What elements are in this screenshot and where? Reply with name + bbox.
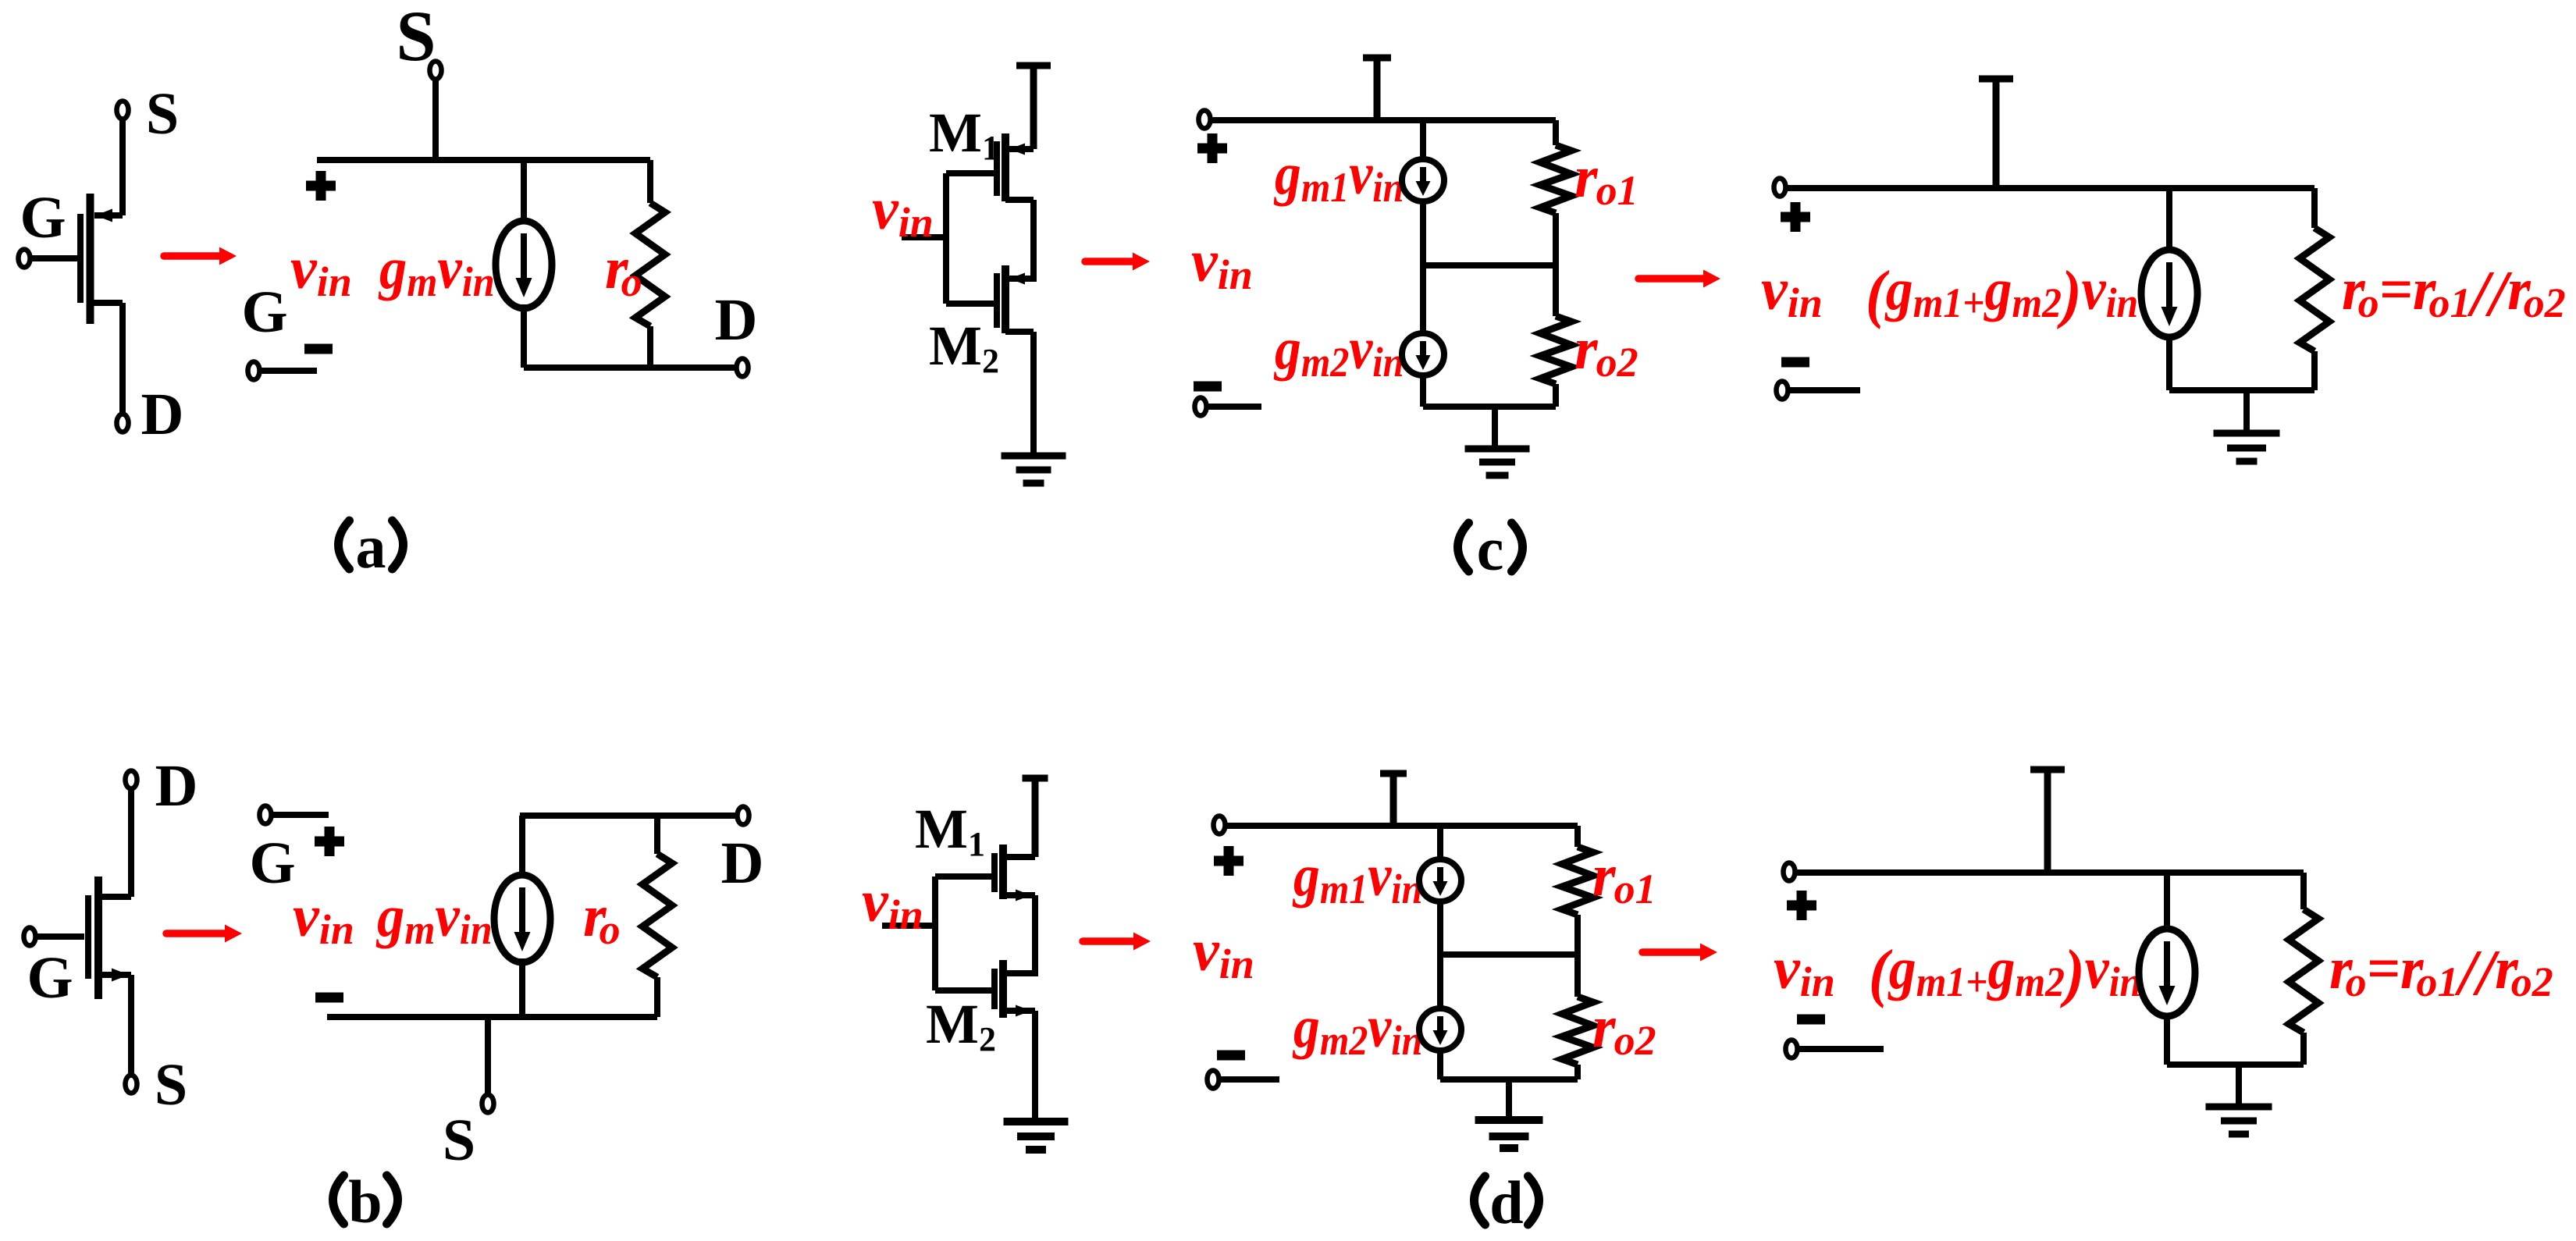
- label g_m v_in: [375, 884, 493, 954]
- resistor top stub: [2300, 873, 2307, 909]
- wire bottom: [1423, 404, 1556, 410]
- wire - stub: [1788, 387, 1860, 393]
- wire bottom: [1440, 1076, 1578, 1083]
- current source g_m1 v_in body: [1419, 859, 1461, 901]
- current source g_m1 v_in outline: [1402, 159, 1444, 201]
- label g_m1 v_in: [1292, 842, 1422, 912]
- resistor r_o: [2289, 909, 2318, 1033]
- M1 source arrow: [1009, 144, 1025, 155]
- power VDD: [2030, 766, 2065, 773]
- power VDD: [1363, 55, 1391, 62]
- gate bracket vertical: [932, 877, 938, 990]
- wire resistor top stub: [647, 160, 653, 203]
- node + circle: [1214, 816, 1226, 834]
- label g_m v_in: [378, 236, 495, 306]
- node + circle: [1774, 179, 1786, 197]
- wire top: [520, 813, 740, 819]
- wire: [519, 958, 525, 1017]
- svg-text:(gm1+gm2)vin: (gm1+gm2)vin: [1866, 256, 2138, 329]
- wire: [1420, 375, 1426, 407]
- M1 drain arrow: [1016, 890, 1031, 901]
- M2 gate bar: [994, 273, 1000, 328]
- wire bottom: [524, 364, 737, 371]
- svg-text:c: c: [1477, 515, 1504, 583]
- D lead: [91, 300, 123, 306]
- node + circle: [1199, 111, 1211, 129]
- channel bar: [94, 877, 102, 999]
- power VDD: [1016, 62, 1051, 69]
- source arrow: [112, 969, 129, 982]
- D wire: [119, 303, 126, 414]
- svg-text:D: D: [155, 753, 198, 819]
- svg-text:G: G: [27, 945, 73, 1011]
- current source g_m v_in body: [2139, 929, 2195, 1016]
- ground: [1002, 453, 1066, 460]
- label (g_m1+g_m2)v_in: [1869, 935, 2141, 1008]
- channel bar: [87, 194, 94, 324]
- ground stem: [1506, 1079, 1512, 1120]
- r_o2 bottom stub: [1574, 1065, 1581, 1079]
- node S circle: [482, 1095, 494, 1113]
- svg-text:S: S: [146, 81, 179, 147]
- svg-text:a: a: [356, 513, 386, 581]
- wire top: [317, 157, 650, 163]
- output wire: [1032, 895, 1038, 976]
- wire: [521, 160, 527, 225]
- gate stub bottom: [946, 300, 997, 307]
- resistor bottom stub: [2300, 1033, 2307, 1065]
- S terminal circle: [117, 101, 129, 119]
- current source outline: [2141, 250, 2197, 337]
- wire: [519, 816, 525, 879]
- M1 source lead: [1005, 146, 1034, 152]
- caption (a): [339, 521, 350, 569]
- current source g_m v_in body: [494, 875, 550, 962]
- svg-text:S: S: [155, 1052, 187, 1118]
- label g_m2 v_in: [1292, 994, 1422, 1064]
- r_o2 top stub: [1574, 955, 1581, 997]
- D lead: [98, 894, 131, 900]
- wire: [2166, 188, 2172, 250]
- S terminal circle: [126, 1076, 137, 1093]
- wire top: [1211, 117, 1556, 123]
- svg-text:S: S: [443, 1108, 475, 1173]
- resistor r_o: [2300, 228, 2329, 351]
- wire: [1420, 201, 1426, 265]
- node G circle: [260, 806, 272, 824]
- svg-text:D: D: [721, 830, 764, 896]
- ground: [1465, 446, 1530, 453]
- M2 gate bar: [991, 969, 998, 1009]
- wire: [1437, 826, 1443, 859]
- resistor bottom stub: [2311, 351, 2318, 390]
- source arrow: [95, 209, 112, 222]
- minus: [304, 344, 333, 354]
- gate bar: [85, 895, 91, 979]
- M2 source arrow: [1016, 1005, 1031, 1017]
- node D circle: [737, 359, 749, 377]
- current source g_m1 v_in outline: [1419, 859, 1461, 901]
- red arrow (c) right: [1638, 275, 1706, 283]
- output wire: [1030, 200, 1037, 282]
- wire bottom: [327, 1014, 657, 1020]
- power VDD: [1380, 770, 1407, 777]
- svg-text:G: G: [20, 185, 66, 251]
- svg-text:D: D: [141, 382, 184, 447]
- M1 channel bar: [1002, 133, 1009, 201]
- ground: [1004, 1118, 1069, 1125]
- wire top: [1786, 185, 2314, 191]
- ground: [2206, 1104, 2272, 1111]
- S lead: [98, 972, 131, 978]
- plus: [1197, 133, 1227, 163]
- svg-text:b: b: [348, 1168, 382, 1236]
- label (g_m1+g_m2)v_in: [1866, 256, 2138, 329]
- ground stem: [2236, 1065, 2242, 1107]
- ground stem: [2243, 390, 2250, 433]
- wire resistor top stub: [654, 816, 660, 854]
- node - circle: [1195, 398, 1207, 416]
- wire bottom: [2167, 1061, 2304, 1068]
- resistor r_o: [642, 854, 672, 977]
- current source g_m1 v_in body: [1402, 159, 1444, 201]
- wire: [1420, 120, 1426, 159]
- red arrow (d) right: [1642, 948, 1703, 956]
- resistor r_o1: [1540, 145, 1571, 213]
- power VDD: [1979, 76, 2013, 83]
- wire: [1437, 955, 1443, 1008]
- current source g_m v_in body: [496, 221, 552, 308]
- r_o1 bottom stub: [1574, 915, 1581, 955]
- wire: [521, 304, 527, 368]
- M1 source lead: [1003, 854, 1035, 860]
- plus: [306, 171, 336, 201]
- plus: [1781, 202, 1810, 232]
- resistor r_o: [635, 203, 665, 326]
- S stub: [485, 1017, 491, 1096]
- S stub: [432, 79, 439, 160]
- current source g_m2 v_in body: [1419, 1008, 1461, 1051]
- current source outline: [496, 221, 552, 308]
- r_o1 bottom stub: [1553, 213, 1559, 265]
- wire: [1437, 901, 1443, 955]
- resistor r_o2: [1562, 997, 1593, 1065]
- M1 gate bar: [991, 853, 998, 892]
- minus: [1781, 357, 1809, 368]
- S wire: [128, 975, 134, 1076]
- gate stub top: [946, 170, 997, 176]
- v_in wire: [902, 234, 946, 240]
- node G circle: [248, 362, 260, 380]
- M1 drain lead: [1003, 892, 1035, 898]
- minus: [1194, 382, 1222, 392]
- current source g_m v_in body: [2141, 250, 2197, 337]
- M2 bottom lead: [1005, 329, 1034, 335]
- gate stub bottom: [935, 987, 994, 994]
- G terminal circle: [19, 250, 30, 268]
- M2 channel bar: [1002, 265, 1009, 333]
- red arrow (d) left: [1083, 937, 1137, 945]
- wire to ground: [1030, 332, 1037, 454]
- r_o2 top stub: [1553, 265, 1559, 316]
- current source g_m2 v_in outline: [1419, 1008, 1461, 1051]
- caption (b): [333, 1175, 344, 1224]
- wire: [2164, 1016, 2170, 1065]
- M1 channel bar: [999, 845, 1007, 899]
- r_o2 bottom stub: [1553, 384, 1559, 407]
- G terminal circle: [24, 928, 36, 946]
- gate bracket vertical: [943, 173, 949, 304]
- power VDD: [1023, 775, 1048, 782]
- S lead: [94, 212, 123, 219]
- wire top: [1226, 823, 1578, 829]
- wire: [1437, 1051, 1443, 1079]
- M2 channel bar: [999, 960, 1007, 1018]
- wire middle: [1440, 951, 1578, 958]
- current source g_m2 v_in outline: [1402, 333, 1444, 375]
- D terminal circle: [117, 414, 129, 432]
- plus: [315, 827, 344, 856]
- node - circle: [1777, 382, 1788, 400]
- wire top: [1795, 869, 2304, 876]
- red arrow (a): [164, 252, 222, 260]
- current source g_m2 v_in body: [1402, 333, 1444, 375]
- resistor top stub: [2311, 188, 2318, 228]
- r_o1 top stub: [1574, 826, 1581, 847]
- minus: [1217, 1051, 1245, 1061]
- red arrow (c) left: [1085, 258, 1136, 265]
- G wire: [35, 933, 84, 940]
- M2 arrow: [1009, 273, 1025, 285]
- label g_m1 v_in: [1273, 140, 1404, 211]
- M1 drain lead: [1005, 197, 1034, 203]
- r_o1 top stub: [1553, 120, 1559, 145]
- wire - stub: [1798, 1046, 1884, 1052]
- plus: [1214, 846, 1244, 876]
- node D circle: [738, 807, 749, 825]
- wire resistor bottom stub: [654, 977, 660, 1017]
- svg-text:D: D: [715, 287, 758, 353]
- caption (d): [1475, 1176, 1485, 1225]
- M1 gate bar: [994, 141, 1000, 196]
- minus: [1797, 1015, 1825, 1025]
- wire to ground: [1032, 1011, 1038, 1122]
- node - circle: [1208, 1071, 1219, 1089]
- M2 top lead: [1005, 276, 1034, 282]
- D wire: [128, 788, 134, 897]
- S wire: [119, 119, 126, 215]
- wire middle: [1423, 262, 1556, 268]
- wire resistor bottom stub: [647, 326, 653, 368]
- wire bottom: [2169, 387, 2314, 393]
- current source outline: [2139, 929, 2195, 1016]
- M2 drain lead: [1003, 970, 1035, 976]
- wire: [2166, 337, 2172, 390]
- wire: [2164, 873, 2170, 929]
- ground: [2214, 430, 2280, 437]
- wire - stub: [1219, 1076, 1279, 1083]
- node - circle: [1786, 1040, 1798, 1058]
- node + circle: [1784, 863, 1795, 881]
- wire - stub: [1207, 404, 1261, 410]
- minus: [315, 993, 343, 1003]
- node S circle: [430, 62, 442, 80]
- wire G stub: [271, 812, 329, 818]
- svg-text:G: G: [241, 279, 287, 345]
- label g_m2 v_in: [1273, 315, 1404, 386]
- plus: [1787, 891, 1816, 920]
- current source outline: [494, 875, 550, 962]
- svg-text:(gm1+gm2)vin: (gm1+gm2)vin: [1869, 935, 2141, 1008]
- wire: [1420, 265, 1426, 333]
- resistor r_o2: [1540, 316, 1571, 384]
- ground: [1475, 1116, 1543, 1124]
- D terminal circle: [126, 771, 137, 789]
- red arrow (b): [166, 930, 228, 937]
- gate bar: [77, 214, 84, 303]
- resistor r_o1: [1562, 847, 1593, 915]
- v_in wire: [882, 923, 935, 929]
- G wire: [30, 255, 77, 261]
- svg-text:G: G: [249, 830, 295, 896]
- wire G stub: [259, 368, 317, 374]
- caption (c): [1458, 523, 1469, 571]
- gate stub top: [935, 873, 994, 880]
- svg-text:d: d: [1489, 1168, 1523, 1236]
- ground stem: [1492, 407, 1498, 449]
- M2 source lead: [1003, 1008, 1035, 1014]
